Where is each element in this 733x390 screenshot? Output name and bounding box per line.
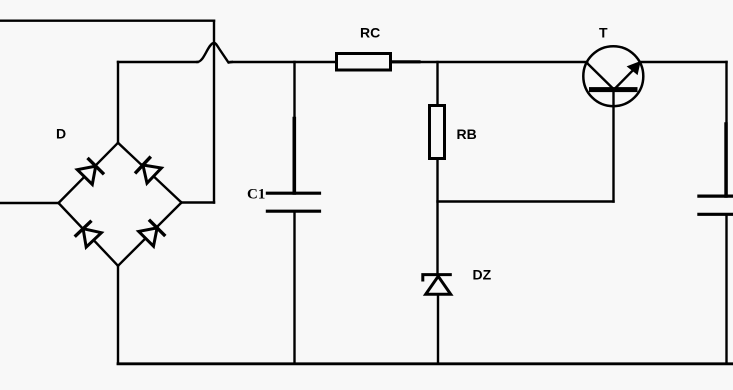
- wire bridge arm top-right: [118, 143, 182, 203]
- wire RB top lead: [436, 62, 438, 104]
- svg-text:D: D: [56, 126, 66, 142]
- wire zener bottom lead: [437, 295, 439, 364]
- diode D2 bridge top-right: [135, 157, 161, 184]
- wire rail transistor to right cap: [641, 61, 727, 63]
- capacitor C2 output: [697, 196, 733, 214]
- wire crossover hop: [198, 43, 233, 63]
- svg-text:RB: RB: [457, 126, 477, 142]
- svg-text:T: T: [599, 25, 608, 41]
- wire rail hop to RC: [231, 61, 336, 63]
- wire vertical AC drop: [213, 21, 215, 203]
- wire bottom rail: [118, 362, 733, 365]
- diode D4 bridge bottom-right: [139, 220, 166, 247]
- resistor RB: [430, 106, 445, 159]
- svg-text:C1: C1: [247, 187, 265, 203]
- wire bridge arm bottom-right: [118, 203, 182, 266]
- wire C1 top lead: [293, 62, 295, 193]
- wire right cap bottom lead: [725, 214, 727, 363]
- wire right cap top lead: [725, 62, 727, 196]
- diode D1 bridge top-left: [77, 158, 104, 185]
- svg-text:DZ: DZ: [473, 267, 492, 283]
- transistor T: [583, 46, 643, 106]
- wire bridge bottom drop: [117, 266, 119, 364]
- wire RB bottom lead to zener: [436, 160, 438, 274]
- zener diode DZ: [423, 275, 452, 295]
- wire rail RC to transistor: [392, 61, 588, 63]
- wire rail from bridge to hop: [118, 61, 198, 63]
- wire base horizontal RB node to transistor base: [438, 200, 614, 202]
- diode D3 bridge bottom-left: [75, 221, 102, 247]
- wire C1 top lead thick part: [292, 119, 296, 194]
- wire RC right stub: [392, 60, 419, 63]
- wire to bridge right node: [182, 201, 215, 203]
- wire top AC input: [0, 20, 214, 22]
- svg-text:RC: RC: [360, 25, 380, 41]
- wire bridge top riser: [117, 62, 119, 143]
- wire C1 bottom lead: [293, 211, 295, 364]
- wire transistor base lead down: [612, 92, 614, 202]
- wire bridge arm bottom-left: [59, 203, 119, 266]
- capacitor C1: [266, 193, 321, 211]
- resistor RC: [337, 54, 391, 71]
- wire right cap top lead thick part: [724, 124, 727, 196]
- wire left AC input: [0, 202, 59, 204]
- wire bridge arm top-left: [59, 143, 119, 203]
